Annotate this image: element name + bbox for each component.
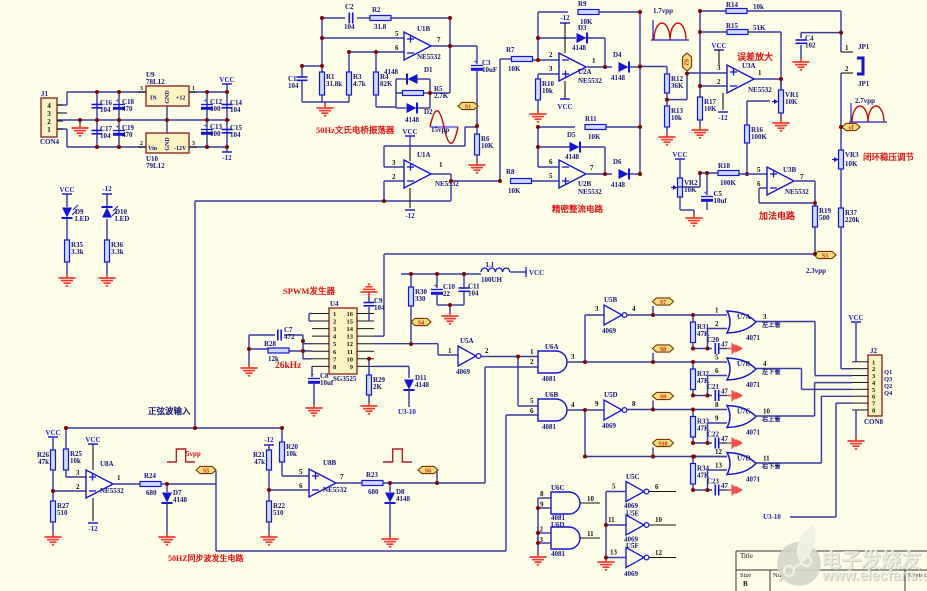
capacitor C22 xyxy=(714,438,716,449)
wire VR2 wiper to R18 xyxy=(699,173,701,187)
power VCC U2A xyxy=(560,98,570,100)
or gate U7C xyxy=(727,406,756,428)
wire RR32 top tie xyxy=(692,362,694,369)
ground under R36 xyxy=(99,274,116,286)
wire sync rail xyxy=(66,427,282,429)
svg-text:10: 10 xyxy=(655,516,663,524)
pin 2 U10 xyxy=(138,146,146,148)
capacitor C5 xyxy=(701,196,713,198)
led D10 xyxy=(102,208,112,218)
net arrow at C22 xyxy=(727,438,742,448)
svg-text:82K: 82K xyxy=(380,80,393,88)
wire C4 branch xyxy=(801,32,841,34)
wire C1 R1 top tie xyxy=(302,65,322,67)
wire U10 GND to mid rail xyxy=(166,120,168,133)
port S6 xyxy=(418,466,438,473)
svg-text:+: + xyxy=(311,373,315,379)
wire VR2 bottom to ground xyxy=(679,197,681,210)
junction dots adder xyxy=(698,171,702,175)
junction dots oscillator xyxy=(320,16,324,20)
watermark logo xyxy=(777,526,821,586)
resistor R1 xyxy=(320,72,325,95)
svg-text:-12: -12 xyxy=(560,14,570,22)
capacitor C12 xyxy=(201,104,213,106)
resistor R10 xyxy=(536,79,541,100)
or gate U7B xyxy=(727,358,756,380)
power -12 R21 xyxy=(264,444,274,446)
svg-text:2.7K: 2.7K xyxy=(434,92,449,100)
diode D3 xyxy=(577,33,587,43)
svg-text:S1: S1 xyxy=(465,104,471,110)
power stub U8A bottom xyxy=(92,498,94,521)
svg-text:31.8k: 31.8k xyxy=(326,80,342,88)
svg-text:2: 2 xyxy=(845,65,849,73)
wire S4 column xyxy=(410,306,412,344)
wire U1A pin2 xyxy=(384,180,404,182)
svg-text:CON4: CON4 xyxy=(40,138,60,146)
svg-text:6: 6 xyxy=(299,482,303,490)
wire pin15 to C9 xyxy=(368,307,370,321)
wire C3 to S1 node xyxy=(476,71,478,126)
svg-text:-12: -12 xyxy=(264,436,274,444)
svg-text:4: 4 xyxy=(571,401,575,409)
wire bottom rail up to U6B pin6 xyxy=(505,415,507,551)
svg-text:1: 1 xyxy=(715,307,719,315)
svg-text:3.3k: 3.3k xyxy=(111,248,124,256)
ground under U6 cluster xyxy=(530,553,547,565)
svg-text:510: 510 xyxy=(57,509,68,517)
svg-text:3: 3 xyxy=(549,65,553,73)
svg-text:15: 15 xyxy=(347,319,354,326)
capacitor C7 xyxy=(277,330,279,341)
led D9 xyxy=(62,208,72,218)
power -12 U3A xyxy=(718,111,728,113)
wire pin12 to U5A xyxy=(374,343,438,345)
svg-text:51K: 51K xyxy=(753,24,766,32)
svg-text:R23: R23 xyxy=(366,471,379,479)
svg-text:104: 104 xyxy=(230,131,241,139)
wire R30 top xyxy=(410,274,412,287)
ground under VR1 xyxy=(773,119,790,131)
jumper JP1 xyxy=(857,58,863,74)
wire C11 column xyxy=(463,274,465,287)
svg-text:VCC: VCC xyxy=(557,103,572,111)
svg-text:2: 2 xyxy=(76,483,80,491)
wire S8 to U5B input xyxy=(584,315,586,362)
svg-text:16: 16 xyxy=(347,311,354,318)
svg-text:J2: J2 xyxy=(870,347,878,355)
resistor R5 xyxy=(403,91,424,96)
power stub U2A bottom xyxy=(564,81,566,99)
wire U3B output xyxy=(795,180,815,182)
svg-text:1: 1 xyxy=(47,126,51,134)
wire D9 to R35 xyxy=(66,219,68,240)
wire R13 to ground xyxy=(666,127,668,133)
svg-text:-12: -12 xyxy=(718,114,728,122)
svg-text:6: 6 xyxy=(757,180,761,188)
pin 3 U10 xyxy=(189,146,197,148)
wire S8 port tail xyxy=(652,353,654,362)
wire port tail to R12 R13 junction xyxy=(686,73,688,100)
or gate U7A xyxy=(727,311,756,333)
svg-text:10K: 10K xyxy=(508,187,521,195)
svg-text:2: 2 xyxy=(392,173,396,181)
svg-text:4071: 4071 xyxy=(746,429,761,437)
diode D5 xyxy=(570,142,580,152)
svg-text:R24: R24 xyxy=(144,472,157,480)
svg-text:U3A: U3A xyxy=(742,62,756,70)
ground under D8 xyxy=(382,535,399,547)
resistor R35 xyxy=(65,240,70,262)
power stub U1A pin4 xyxy=(409,188,411,208)
wire C1 R1 bottom tie xyxy=(301,81,303,102)
wire R3 bottom xyxy=(348,95,350,102)
wire RR34 top tie xyxy=(692,457,694,464)
wire JP1-2 column down xyxy=(840,73,842,150)
and gate U6C xyxy=(551,492,580,514)
svg-text:2: 2 xyxy=(549,51,553,59)
svg-text:7: 7 xyxy=(800,173,804,181)
svg-text:47: 47 xyxy=(721,435,729,443)
wire VR3 to R37 xyxy=(840,169,842,208)
capacitor C20 xyxy=(714,343,716,354)
inverter U5C xyxy=(626,482,644,502)
svg-text:4148: 4148 xyxy=(415,381,430,389)
svg-text:R14: R14 xyxy=(726,1,739,9)
junction dots gate inputs xyxy=(516,355,520,359)
svg-text:1: 1 xyxy=(758,69,762,77)
svg-text:102: 102 xyxy=(805,42,816,50)
capacitor C23 xyxy=(714,485,716,496)
waveform 5vpp square xyxy=(167,449,195,462)
ground under R27 xyxy=(45,533,62,545)
stub U5F out xyxy=(649,557,676,559)
resistor R19 xyxy=(813,206,818,227)
svg-text:D4: D4 xyxy=(613,51,622,59)
svg-text:U6B: U6B xyxy=(545,391,559,399)
ground under C4 xyxy=(793,58,810,70)
power -12 U2A xyxy=(560,22,570,24)
resistor R12 xyxy=(665,74,670,93)
resistor R17 xyxy=(698,97,703,120)
waveform 1.7vpp xyxy=(651,20,689,40)
svg-text:5: 5 xyxy=(612,483,616,491)
svg-text:U5D: U5D xyxy=(604,391,618,399)
wire J1 pin3 stub xyxy=(57,112,67,114)
resistor R9 xyxy=(578,10,599,15)
wire ground tap on mid rail xyxy=(79,120,81,124)
svg-text:2.7vpp: 2.7vpp xyxy=(855,97,875,105)
port vf xyxy=(842,123,860,130)
wire R9 feedback line xyxy=(538,11,568,13)
svg-text:J1: J1 xyxy=(41,90,49,98)
svg-text:10k: 10k xyxy=(286,450,297,458)
svg-text:NE5532: NE5532 xyxy=(748,86,772,94)
svg-text:79L12: 79L12 xyxy=(146,162,165,170)
svg-text:S8: S8 xyxy=(660,347,666,353)
power stub U2A top xyxy=(564,23,566,53)
svg-text:47k: 47k xyxy=(254,458,265,466)
resistor R30 xyxy=(409,287,414,306)
svg-text:104: 104 xyxy=(230,106,241,114)
svg-text:3: 3 xyxy=(392,159,396,167)
op-amp U1A xyxy=(404,160,431,188)
svg-text:10K: 10K xyxy=(785,98,798,106)
svg-text:2: 2 xyxy=(333,319,336,326)
svg-text:2.3vpp: 2.3vpp xyxy=(806,267,826,275)
svg-text:4069: 4069 xyxy=(456,368,471,376)
svg-text:CON8: CON8 xyxy=(864,418,884,426)
svg-text:2: 2 xyxy=(715,320,719,328)
diode D8 xyxy=(385,493,395,503)
pin JP1-2 stub xyxy=(841,72,853,74)
svg-text:10K: 10K xyxy=(704,105,717,113)
svg-text:U7C: U7C xyxy=(737,408,751,416)
and gate U6D xyxy=(551,527,580,549)
potentiometer VR3 xyxy=(839,150,844,169)
capacitor C15 xyxy=(222,129,233,131)
svg-text:10K: 10K xyxy=(481,142,494,150)
wire U6C U6D input tie xyxy=(537,498,539,551)
wire R20 column xyxy=(281,428,283,442)
svg-text:+: + xyxy=(204,124,208,130)
svg-text:5: 5 xyxy=(757,166,761,174)
wire C19 column xyxy=(118,120,120,147)
wire -12 rail xyxy=(189,146,227,148)
port S5 xyxy=(196,466,216,473)
svg-text:100: 100 xyxy=(210,105,221,113)
svg-text:10k: 10k xyxy=(70,457,81,465)
wire C7 line xyxy=(249,334,275,336)
svg-text:2: 2 xyxy=(47,118,51,126)
svg-text:+12: +12 xyxy=(176,96,185,102)
resistor R3 xyxy=(347,72,352,95)
svg-text:4: 4 xyxy=(632,305,636,313)
svg-text:104: 104 xyxy=(288,82,299,90)
wire D7 branch xyxy=(166,484,168,492)
op-amp U1B xyxy=(404,32,431,60)
wire pin9 to D11 xyxy=(374,365,409,367)
wire C7 R28 ground column xyxy=(248,335,250,364)
capacitor C18 xyxy=(113,104,125,106)
svg-text:NE5532: NE5532 xyxy=(100,487,124,495)
wire C23 to arrow xyxy=(719,489,727,491)
svg-text:D5: D5 xyxy=(567,131,576,139)
svg-text:47k: 47k xyxy=(38,458,49,466)
ground under VR2 xyxy=(686,214,703,226)
svg-text:U5E: U5E xyxy=(626,510,640,518)
wire U1B output xyxy=(431,45,450,47)
svg-text:VR3: VR3 xyxy=(845,151,859,159)
wire C21 to arrow xyxy=(719,395,727,397)
wire S7 port tail xyxy=(652,306,654,315)
svg-text:5: 5 xyxy=(715,354,719,362)
wire VCC to VR2 xyxy=(679,159,681,178)
svg-text:100K: 100K xyxy=(720,179,737,187)
svg-text:3: 3 xyxy=(76,469,80,477)
svg-text:VCC: VCC xyxy=(711,42,726,50)
ground at J1 mid rail xyxy=(72,124,89,136)
wire R7 left column xyxy=(499,59,501,181)
waveform 2.7vpp xyxy=(849,103,887,122)
svg-text:D2: D2 xyxy=(424,108,433,116)
svg-text:4071: 4071 xyxy=(746,334,761,342)
svg-text:470: 470 xyxy=(122,105,133,113)
wire VR1 wiper to R16 xyxy=(747,100,770,102)
wire RR33 top tie xyxy=(692,410,694,417)
svg-text:100K: 100K xyxy=(751,133,768,141)
svg-text:精密整流电路: 精密整流电路 xyxy=(552,204,604,214)
svg-text:R8: R8 xyxy=(506,168,515,176)
svg-text:3: 3 xyxy=(717,64,721,72)
resistor R18 xyxy=(718,171,739,176)
wire VCC filter rail xyxy=(401,273,481,275)
svg-text:4071: 4071 xyxy=(746,476,761,484)
svg-text:U7D: U7D xyxy=(737,455,751,463)
svg-text:U1B: U1B xyxy=(417,25,431,33)
wire S10 port tail xyxy=(652,448,654,457)
svg-text:L1: L1 xyxy=(486,261,495,269)
svg-text:36K: 36K xyxy=(671,82,684,90)
svg-text:U5A: U5A xyxy=(460,337,474,345)
svg-text:4.7k: 4.7k xyxy=(353,80,366,88)
svg-text:10uf: 10uf xyxy=(320,379,334,387)
wire R27 to ground xyxy=(52,522,54,533)
svg-text:C20: C20 xyxy=(707,336,720,344)
svg-text:10K: 10K xyxy=(508,65,521,73)
wire C17 column xyxy=(96,120,98,147)
svg-text:D1: D1 xyxy=(424,66,433,74)
wire U7A output to J2 xyxy=(756,321,815,323)
wire R29 to ground xyxy=(368,395,370,402)
inverter U5B xyxy=(604,305,622,325)
svg-text:2: 2 xyxy=(140,141,143,147)
wire R16 to adder xyxy=(746,143,748,174)
wire S1 node to U1A pin3 xyxy=(465,126,477,128)
svg-text:4081: 4081 xyxy=(551,550,566,558)
svg-text:1: 1 xyxy=(845,44,849,52)
wire -12 to R21 xyxy=(268,445,270,450)
wire pin jog U7C xyxy=(707,423,709,443)
resistor R11 xyxy=(585,125,606,130)
wire U7D output to J2 xyxy=(756,462,821,464)
resistor R6 xyxy=(475,134,480,155)
svg-text:S10: S10 xyxy=(658,441,667,447)
power stub U3A bottom xyxy=(722,93,724,110)
wire U5 cluster input tie xyxy=(605,492,607,558)
svg-text:8: 8 xyxy=(715,401,719,409)
power -12 for D10 xyxy=(102,193,112,195)
wire U3-10 to J2 pin7 xyxy=(790,516,836,518)
wire R6 to ground xyxy=(476,155,478,161)
wire S9 port tail xyxy=(652,401,654,410)
svg-text:4148: 4148 xyxy=(611,74,626,82)
capacitor C16 xyxy=(92,104,103,106)
svg-text:1: 1 xyxy=(530,348,534,356)
regulator U9 78L12 xyxy=(146,86,189,106)
svg-text:22: 22 xyxy=(443,290,451,298)
svg-text:5vpp: 5vpp xyxy=(186,450,201,458)
wire pin6 U1B line xyxy=(349,51,404,53)
port S7 xyxy=(653,298,674,305)
wire C5 leads xyxy=(706,173,708,195)
port S1 xyxy=(458,102,478,109)
wire U3B feedback xyxy=(759,187,767,189)
resistor R27 xyxy=(51,501,56,522)
resistor R22 xyxy=(267,501,272,522)
op-amp U3B xyxy=(767,167,794,195)
wire R24 to S5 node xyxy=(161,483,216,485)
svg-text:1: 1 xyxy=(439,161,443,169)
svg-text:GND: GND xyxy=(165,137,171,151)
wire D3 line xyxy=(538,37,576,39)
wire C13 column xyxy=(206,120,208,147)
svg-text:4: 4 xyxy=(47,102,51,110)
resistor R29 xyxy=(367,375,372,395)
svg-text:104: 104 xyxy=(468,290,479,298)
wire D10 to R36 xyxy=(106,219,108,240)
wire U7B output to J2 xyxy=(756,368,802,370)
waveform square at S6 xyxy=(383,449,412,462)
svg-text:9: 9 xyxy=(715,415,719,423)
resistor R13 xyxy=(665,106,670,127)
wire J1 pin1 to bottom rail xyxy=(57,128,67,130)
svg-text:闭环稳压调节: 闭环稳压调节 xyxy=(863,152,915,162)
svg-text:R15: R15 xyxy=(726,22,739,30)
wire R12 R13 junction xyxy=(666,93,668,106)
ground under R13 xyxy=(659,133,676,145)
wire U6B out down to S10 line xyxy=(584,410,586,457)
wire R20 to U8B pin5 xyxy=(281,462,283,476)
inverter U5D xyxy=(604,400,622,420)
junction dots stage U7D xyxy=(651,455,655,459)
svg-text:Q4: Q4 xyxy=(884,390,893,397)
svg-text:U8B: U8B xyxy=(323,459,337,467)
svg-text:U5C: U5C xyxy=(626,473,640,481)
ground under D7 xyxy=(159,533,176,545)
diode D6 xyxy=(619,169,629,179)
svg-text:U2A: U2A xyxy=(578,68,592,76)
wire U2A pin3 to R10 xyxy=(538,73,559,75)
ground under C8 xyxy=(306,404,323,416)
power stub U3A top xyxy=(718,50,720,65)
wire J1 pin4 to top rail xyxy=(57,104,67,106)
svg-text:4148: 4148 xyxy=(405,116,420,124)
svg-text:Q1: Q1 xyxy=(884,369,892,376)
svg-text:NE5532: NE5532 xyxy=(578,188,602,196)
junction dots rectifier xyxy=(536,36,540,40)
svg-text:10k: 10k xyxy=(542,87,553,95)
wire U4 pin1-pin2 loop xyxy=(309,313,312,315)
stub U6D out xyxy=(580,537,600,539)
wire J1 pin2 mid rail xyxy=(57,119,230,121)
wire R17 column xyxy=(699,86,701,97)
resistor R15 xyxy=(727,30,748,35)
wire U3A out to VR1 xyxy=(754,78,781,80)
wire U6B out S9 source xyxy=(567,409,604,411)
svg-text:U4: U4 xyxy=(330,300,339,308)
capacitor C17 xyxy=(92,130,103,132)
svg-text:13: 13 xyxy=(347,334,354,341)
svg-text:11: 11 xyxy=(587,530,594,538)
svg-text:U3-10: U3-10 xyxy=(763,513,781,521)
wire pin jog U7A xyxy=(707,329,709,349)
junction dots power section xyxy=(95,90,99,94)
diode D4 xyxy=(619,62,629,72)
wire VCC to D9 xyxy=(66,194,68,207)
ground under R22 xyxy=(261,533,278,545)
wire R14 line xyxy=(700,10,726,12)
